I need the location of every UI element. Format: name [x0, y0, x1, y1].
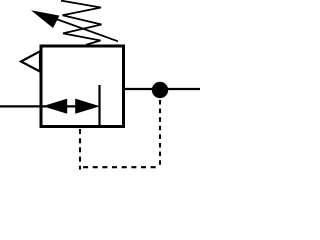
junction dot on outlet line [152, 82, 168, 98]
double arrow right head [75, 99, 100, 114]
relief vent triangle (open, on left side of valve body) [21, 51, 40, 71]
adjustment arrow head [31, 10, 60, 28]
pilot line: dashed vertical from valve bottom [79, 129, 81, 170]
internal vertical line [98, 85, 100, 127]
spring (zigzag) [61, 1, 102, 45]
pilot line: dashed horizontal bottom run [83, 166, 160, 168]
double arrow left head [43, 99, 68, 114]
valve body (square) [41, 46, 124, 127]
internal flow line with double arrow [42, 105, 76, 107]
pilot line: dashed vertical up to junction dot [159, 100, 161, 167]
wire: left inlet line [0, 105, 42, 107]
adjustment arrow shaft [52, 18, 118, 42]
wire: right outlet line [123, 88, 200, 90]
